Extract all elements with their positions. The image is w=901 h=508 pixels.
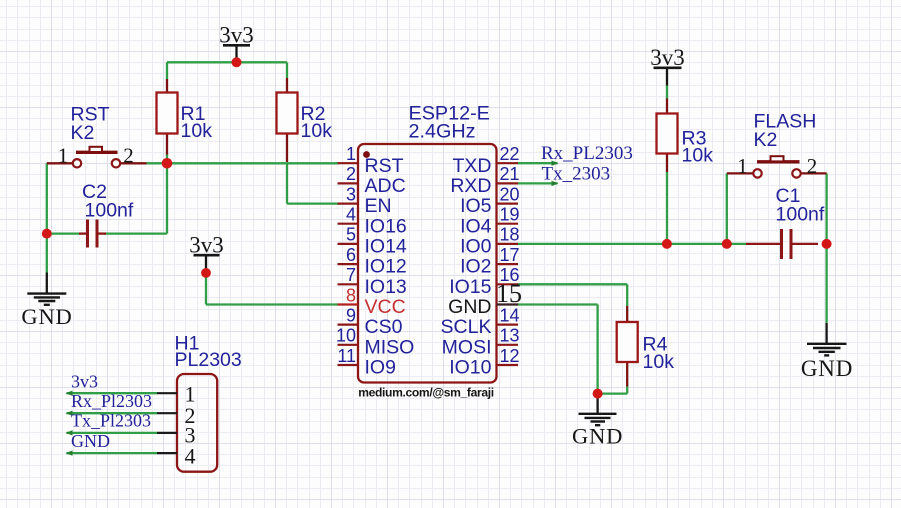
svg-text:21: 21 <box>500 164 520 184</box>
svg-text:K2: K2 <box>754 129 778 151</box>
pin 9 CS0 <box>338 305 403 338</box>
svg-text:1: 1 <box>346 144 356 164</box>
wire H1 pin1 net <box>67 392 158 394</box>
arrow H1 net3 end <box>66 430 73 435</box>
svg-text:19: 19 <box>500 205 520 225</box>
node FLASH left / IO0 <box>722 239 732 249</box>
stem GND mid <box>596 394 598 415</box>
pin 16 IO15 <box>449 265 519 298</box>
svg-text:9: 9 <box>346 305 356 325</box>
pin 11 IO9 <box>337 346 396 379</box>
H1 pin 3 <box>157 422 196 447</box>
svg-text:10k: 10k <box>682 145 714 167</box>
svg-text:TXD: TXD <box>453 155 492 177</box>
svg-text:1: 1 <box>737 154 748 178</box>
svg-text:GND: GND <box>572 424 623 449</box>
wire H1 pin4 net <box>67 452 158 454</box>
svg-text:20: 20 <box>500 184 520 204</box>
svg-text:Tx_2303: Tx_2303 <box>542 164 611 185</box>
stem 3v3 top-left <box>235 45 237 62</box>
pin 22 TXD <box>453 144 520 177</box>
svg-text:IO14: IO14 <box>365 236 407 258</box>
pin 6 IO12 <box>338 245 407 278</box>
pin 14 SCLK <box>441 305 520 338</box>
wire H1 pin3 net <box>67 432 158 434</box>
svg-text:ADC: ADC <box>365 175 406 197</box>
node 3v3 top bus <box>232 57 242 67</box>
svg-text:2.4GHz: 2.4GHz <box>409 121 476 143</box>
svg-text:10k: 10k <box>181 120 213 142</box>
wire pin15 horizontal <box>518 303 598 305</box>
svg-text:PL2303: PL2303 <box>175 349 242 371</box>
svg-text:IO4: IO4 <box>460 215 492 237</box>
node 3v3 mid <box>201 268 211 278</box>
svg-text:K2: K2 <box>71 122 95 144</box>
wire node to C2 right <box>166 163 168 233</box>
pin 20 IO5 <box>460 184 519 217</box>
svg-text:3: 3 <box>346 184 356 204</box>
H1 pin 1 <box>157 382 196 407</box>
svg-text:RXD: RXD <box>450 175 491 197</box>
wire RST net to pin1 <box>147 162 339 164</box>
wire C2 left segment <box>47 232 81 234</box>
svg-text:GND: GND <box>71 431 110 451</box>
svg-text:6: 6 <box>346 245 356 265</box>
wire FLASH left drop <box>726 173 728 244</box>
svg-text:GND: GND <box>448 296 491 318</box>
svg-text:10k: 10k <box>643 351 675 373</box>
pin 13 MOSI <box>442 326 520 359</box>
svg-text:IO0: IO0 <box>460 236 492 258</box>
svg-text:11: 11 <box>337 346 356 366</box>
svg-text:MISO: MISO <box>365 336 415 358</box>
wire 3v3 top bus <box>167 61 287 63</box>
pin 19 IO4 <box>460 205 519 238</box>
svg-text:100nf: 100nf <box>85 200 134 222</box>
pin 4 IO16 <box>338 205 407 238</box>
stem 3v3 right <box>666 68 668 86</box>
pin 12 IO10 <box>449 346 519 379</box>
pin 2 ADC <box>338 164 406 197</box>
stem 3v3 mid <box>205 255 207 273</box>
wire end arrows <box>66 161 559 456</box>
svg-text:GND: GND <box>801 356 853 381</box>
svg-text:IO15: IO15 <box>449 276 491 298</box>
svg-text:10k: 10k <box>301 120 333 142</box>
pin 8 VCC <box>338 285 406 318</box>
svg-text:7: 7 <box>346 265 356 285</box>
wire Rx net <box>518 162 558 164</box>
node R4 / GND <box>593 389 603 399</box>
svg-text:Tx_Pl2303: Tx_Pl2303 <box>71 411 151 431</box>
svg-text:14: 14 <box>500 305 520 325</box>
svg-text:MOSI: MOSI <box>442 336 492 358</box>
svg-text:5: 5 <box>346 225 356 245</box>
wire R4 to GND node <box>598 392 628 394</box>
wire R1 top <box>166 62 168 79</box>
svg-text:100nf: 100nf <box>776 204 825 226</box>
stem GND left <box>46 273 48 295</box>
wire EN to pin3 <box>287 202 339 204</box>
svg-text:2: 2 <box>123 144 134 168</box>
svg-text:13: 13 <box>500 326 520 346</box>
svg-text:2: 2 <box>346 164 356 184</box>
svg-text:18: 18 <box>500 225 520 245</box>
svg-text:IO9: IO9 <box>365 357 396 379</box>
svg-text:medium.com/@sm_faraji: medium.com/@sm_faraji <box>358 386 494 400</box>
svg-text:3v3: 3v3 <box>650 45 685 70</box>
wire H1 pin2 net <box>67 412 158 414</box>
arrow H1 net1 end <box>66 391 73 396</box>
wire C1 right to GND <box>825 244 827 323</box>
svg-text:GND: GND <box>21 304 72 329</box>
wire pin15 down to GND node <box>596 305 598 394</box>
wire R4 bottom <box>626 386 628 394</box>
node C1 right <box>822 239 832 249</box>
svg-text:3v3: 3v3 <box>219 23 254 48</box>
svg-text:8: 8 <box>346 285 356 305</box>
wire VCC to pin8 <box>206 303 339 305</box>
pin 15 GND <box>448 279 522 318</box>
svg-text:4: 4 <box>346 205 356 225</box>
svg-text:SCLK: SCLK <box>441 316 492 338</box>
svg-text:22: 22 <box>500 144 520 164</box>
svg-text:2: 2 <box>807 154 818 178</box>
wire Tx net <box>518 182 558 184</box>
pin 18 IO0 <box>460 225 519 258</box>
wire FLASH right drop <box>825 173 827 244</box>
svg-text:IO2: IO2 <box>460 256 491 278</box>
wire 3v3 mid down <box>205 273 207 305</box>
pin 3 EN <box>338 184 392 217</box>
arrow Rx wire end <box>552 161 559 166</box>
svg-text:IO13: IO13 <box>365 276 407 298</box>
wire IO0 bus <box>518 243 747 245</box>
pin 1 marker dot <box>363 151 370 158</box>
node R3 / IO0 <box>662 239 672 249</box>
svg-text:17: 17 <box>500 245 520 265</box>
stem GND right <box>825 323 827 344</box>
svg-text:EN: EN <box>365 195 392 217</box>
wire R2 down to EN <box>286 163 288 203</box>
arrow H1 net2 end <box>66 411 73 416</box>
svg-text:RST: RST <box>365 155 404 177</box>
svg-text:3v3: 3v3 <box>71 372 98 392</box>
pin 5 IO14 <box>338 225 407 258</box>
svg-text:CS0: CS0 <box>365 316 403 338</box>
arrow Tx wire end <box>552 181 559 186</box>
H1 pin 4 <box>157 444 196 469</box>
arrow H1 net4 end <box>66 451 73 456</box>
svg-text:Rx_Pl2303: Rx_Pl2303 <box>71 391 152 411</box>
pin 21 RXD <box>450 164 519 197</box>
pin 1 RST <box>338 144 404 177</box>
svg-text:IO5: IO5 <box>460 195 492 217</box>
wire left drop to GND <box>46 163 48 272</box>
pin 17 IO2 <box>460 245 519 278</box>
svg-text:3v3: 3v3 <box>189 233 224 258</box>
svg-text:IO12: IO12 <box>365 256 407 278</box>
wire pin16 horizontal <box>518 283 628 285</box>
wire R3 bottom drop <box>666 172 668 244</box>
pin 10 MISO <box>336 326 414 359</box>
wire R3 top segment <box>666 85 668 100</box>
pin 7 IO13 <box>338 265 407 298</box>
svg-text:IO10: IO10 <box>449 357 491 379</box>
H1 pin 2 <box>157 403 196 428</box>
svg-text:1: 1 <box>58 144 69 168</box>
svg-text:IO16: IO16 <box>365 215 407 237</box>
wire pin16 down to R4 <box>626 284 628 306</box>
wire R2 top <box>286 62 288 78</box>
wire R1 bottom to node <box>166 154 168 164</box>
svg-text:Rx_PL2303: Rx_PL2303 <box>541 143 633 164</box>
svg-text:VCC: VCC <box>365 296 406 318</box>
svg-text:15: 15 <box>496 279 522 308</box>
svg-text:10: 10 <box>336 326 356 346</box>
node RST net <box>162 158 173 169</box>
svg-text:4: 4 <box>185 444 196 469</box>
node C2 left <box>42 229 52 239</box>
svg-text:12: 12 <box>500 346 520 366</box>
wire C2 right segment <box>105 232 168 234</box>
